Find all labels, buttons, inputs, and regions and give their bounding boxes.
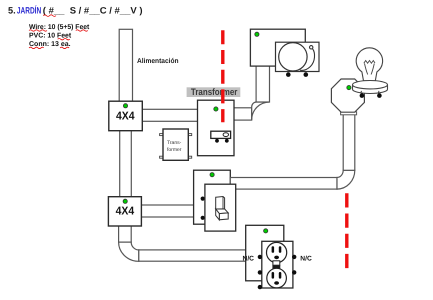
bulb filament (364, 61, 375, 64)
wire: conduit transformer box to elbow A (233, 108, 252, 120)
red dashed cut line left (221, 30, 224, 122)
transformer box U1 (198, 100, 235, 156)
green dot on switch box (210, 173, 214, 177)
svg-text:Conn: 13 ea.: Conn: 13 ea. (29, 41, 71, 48)
svg-text:4X4: 4X4 (116, 206, 135, 218)
device terminal dots (286, 72, 291, 77)
label Transformer (gray highlight) (187, 86, 241, 97)
elbow down-to-right below 4X4#2 (119, 242, 139, 261)
device swirl arc (300, 49, 315, 71)
switch junction box (194, 170, 231, 224)
lower outlet (267, 268, 287, 288)
wire: conduit 4X4#1 down to 4X4#2 (120, 130, 132, 198)
svg-text:Transformer: Transformer (191, 86, 238, 97)
bulb globe (356, 48, 382, 81)
note line 2: PVC (29, 33, 72, 40)
svg-text:JARDÍN: JARDÍN (17, 5, 42, 16)
green dot on octagon (347, 86, 351, 90)
title: 5. JARDIN (#__ S / #__C / #__V ) (8, 5, 143, 16)
transformer symbol lamp (223, 133, 228, 137)
junction box (top right) (250, 29, 305, 66)
bulb stem wires (365, 64, 368, 75)
svg-text:Wire: 10 (5+5) Feet: Wire: 10 (5+5) Feet (29, 23, 90, 31)
green dot (214, 107, 218, 111)
wire: conduit switch to right elbow (230, 178, 337, 190)
device small knob (310, 46, 313, 49)
svg-text:4X4: 4X4 (116, 111, 135, 123)
wire: conduit elbow A up to device box (256, 66, 269, 102)
lamp terminal left (360, 91, 363, 94)
lamp base disc (353, 85, 388, 94)
svg-text:former: former (167, 147, 182, 153)
elbow up at right of transformer box (252, 102, 270, 120)
wire: conduit 4X4#1 to transformer box (141, 109, 199, 121)
svg-text:( #__ S / #__C / #__V ): ( #__ S / #__C / #__V ) (43, 6, 143, 16)
squiggle under Feet (line2) (58, 39, 70, 40)
lamp terminal right (377, 91, 380, 94)
wire: bottom conduit to receptacle box (139, 250, 248, 261)
svg-text:Alimentación: Alimentación (137, 57, 179, 65)
switch plate (205, 184, 236, 231)
svg-text:N/C: N/C (300, 255, 312, 262)
svg-text:N/C: N/C (243, 255, 255, 262)
wire: conduit 4X4#2 to switch box (141, 205, 195, 217)
note line 3: Conn (29, 41, 71, 48)
upper outlet (267, 242, 287, 262)
elbow right up to octagon (337, 170, 355, 189)
red dashed cut line right (345, 193, 348, 268)
transformer terminal dots (215, 139, 219, 143)
squiggle under Wire: (29, 30, 47, 31)
wire: Alimentacion feed conduit (vertical, top) (119, 29, 132, 103)
switch terminal dots (201, 197, 205, 201)
breakoff tab (273, 261, 280, 265)
conduit collar below octagon (341, 112, 357, 115)
device plate (timer/motor) (276, 42, 320, 71)
note line 1: Wire (29, 23, 90, 31)
green dot (264, 229, 268, 233)
svg-text:Trans-: Trans- (167, 140, 182, 146)
wire: conduit 4X4#2 down to elbow (119, 225, 132, 242)
green dot (255, 32, 259, 36)
squiggle under ea. (60, 47, 69, 48)
device dial circle (279, 43, 307, 71)
receptacle terminal dots left (258, 255, 262, 259)
receptacle terminal dots right (292, 255, 296, 259)
squiggle under Feet (line1) (76, 30, 88, 31)
wire: conduit elbow up to octagon box (343, 112, 355, 170)
red underline under "( #" (43, 15, 56, 17)
receptacle plate (262, 241, 293, 288)
squiggle under Conn: (29, 47, 44, 48)
receptacle junction box (246, 225, 284, 280)
transformer symbol body (211, 131, 231, 138)
svg-text:5.: 5. (8, 6, 16, 16)
switch toggle (3D) (216, 197, 229, 220)
